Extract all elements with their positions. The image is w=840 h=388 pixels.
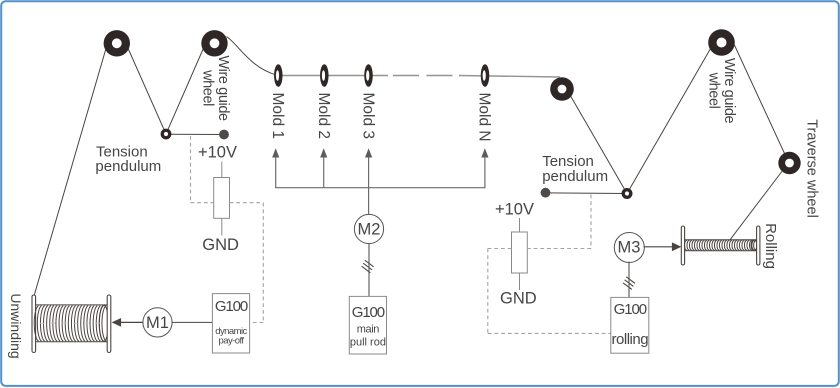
arrow M3 to rolling spool <box>644 242 682 251</box>
G100 dynamic pay-off box <box>212 294 249 353</box>
G100 rolling box <box>611 297 649 353</box>
label Wire guide wheel (right) <box>706 58 738 124</box>
svg-text:Mold 1: Mold 1 <box>269 93 286 140</box>
pendulum arm right <box>546 192 628 195</box>
wire W1 to pivot P1 <box>127 46 166 134</box>
mold 2 <box>320 64 329 87</box>
node dot left +10V <box>219 130 229 140</box>
svg-text:G100: G100 <box>215 298 248 315</box>
break marks M3 line <box>623 277 635 290</box>
svg-text:G100: G100 <box>352 304 385 321</box>
resistor right <box>512 232 528 273</box>
svg-text:Wire guide: Wire guide <box>721 58 737 124</box>
svg-text:G100: G100 <box>614 301 647 318</box>
wire guide wheel W1 <box>104 30 130 56</box>
arrow shaft mold1 <box>276 156 485 188</box>
mold feedback arrows <box>276 156 485 215</box>
resistor left <box>214 178 230 219</box>
svg-text:Mold 2: Mold 2 <box>315 93 332 140</box>
mold 1 <box>274 64 283 87</box>
svg-text:Mold 3: Mold 3 <box>359 93 376 140</box>
rolling spool flange right <box>757 226 760 265</box>
break marks M2 line <box>362 260 374 273</box>
arrow shaft mold3 / M2 line <box>368 156 370 215</box>
wire guide wheel W2 <box>201 30 227 56</box>
svg-text:pay-off: pay-off <box>218 336 244 347</box>
svg-text:pull rod: pull rod <box>350 337 386 349</box>
wire <box>34 37 788 297</box>
motor M3 <box>614 233 644 263</box>
rolling spool flange left <box>681 226 684 265</box>
node dot right +10V <box>541 188 551 198</box>
wire W3 to pivot P2 <box>570 95 627 194</box>
pivot P1 <box>161 129 172 140</box>
rolling spool coil <box>684 240 757 251</box>
svg-text:M2: M2 <box>358 221 381 239</box>
motor M2 <box>354 214 383 243</box>
svg-text:+10V: +10V <box>495 200 534 218</box>
wire M1 to G100 pay-off <box>172 321 212 323</box>
pivot P2 <box>622 188 633 199</box>
svg-text:Traverse wheel: Traverse wheel <box>804 119 820 218</box>
wire W4 to W5 <box>733 42 788 161</box>
svg-text:wheel: wheel <box>200 69 216 106</box>
svg-text:rolling: rolling <box>612 331 649 348</box>
unwinding spool flange left <box>32 295 36 353</box>
wire guide wheel W4 <box>708 29 735 56</box>
arrow M1 to unwinding spool <box>112 318 143 327</box>
wire pivot P1 to W2 <box>166 47 204 134</box>
svg-text:M3: M3 <box>618 239 641 257</box>
wire pivot P2 to W4 <box>627 46 712 194</box>
svg-text:Wire guide: Wire guide <box>215 55 231 121</box>
G100 main pull rod box <box>349 296 386 354</box>
pendulum arm left <box>166 133 224 135</box>
dashed feedback loop left <box>191 136 264 323</box>
wire dot to resistor (right) <box>519 218 521 232</box>
dashed feedback loop right <box>488 195 611 334</box>
svg-text:pendulum: pendulum <box>95 158 161 175</box>
mold N <box>481 64 490 87</box>
arrowhead mold3 <box>365 148 372 157</box>
svg-text:main: main <box>357 324 380 336</box>
unwinding spool coil <box>34 305 108 342</box>
wire curve W2 to mold line <box>227 37 278 76</box>
svg-text:Unwinding: Unwinding <box>8 293 24 358</box>
label Wire guide wheel (left) <box>200 55 232 121</box>
mold 3 <box>364 64 373 87</box>
wire M3 to G100 rolling <box>628 262 630 298</box>
svg-text:+10V: +10V <box>198 143 237 161</box>
svg-text:Mold N: Mold N <box>476 93 493 142</box>
svg-text:Rolling: Rolling <box>762 223 779 269</box>
motor M1 <box>143 308 172 337</box>
arrow shaft mold2 <box>323 156 325 188</box>
arrowhead mold2 <box>320 148 327 157</box>
wire mold line <box>277 76 560 78</box>
svg-text:GND: GND <box>500 290 537 308</box>
wire resistor to GND (left) <box>221 218 223 235</box>
wheel W3 <box>550 77 574 101</box>
wire W5 to rolling coil <box>730 170 783 240</box>
arrowhead moldN <box>481 148 488 157</box>
traverse wheel W5 <box>778 152 800 174</box>
wire M2 to G100 main <box>368 244 370 297</box>
arrowhead mold1 <box>272 148 279 157</box>
wire resistor to GND (right) <box>519 273 521 290</box>
svg-text:pendulum: pendulum <box>542 168 608 185</box>
wire unwinding spool to W1 <box>34 45 107 296</box>
unwinding spool flange right <box>107 295 111 353</box>
svg-text:wheel: wheel <box>706 72 722 109</box>
wire dot to resistor (left) <box>221 162 223 178</box>
svg-text:GND: GND <box>202 236 239 254</box>
svg-text:M1: M1 <box>146 314 169 332</box>
